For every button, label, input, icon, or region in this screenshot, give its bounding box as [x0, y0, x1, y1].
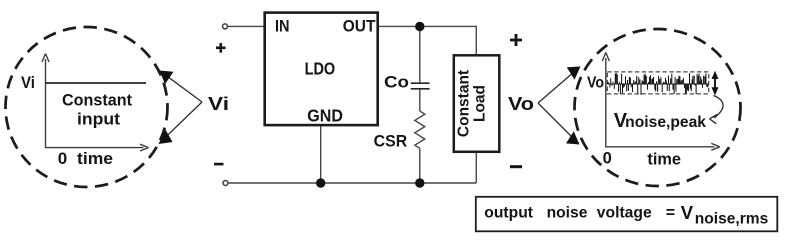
svg-text:time: time [77, 150, 113, 168]
svg-text:Vi: Vi [21, 74, 35, 92]
svg-text:Load: Load [472, 85, 489, 122]
svg-text:OUT: OUT [343, 16, 376, 35]
svg-text:LDO: LDO [305, 59, 336, 79]
svg-text:0: 0 [58, 149, 67, 168]
svg-text:V: V [681, 202, 694, 223]
svg-text:voltage: voltage [597, 205, 652, 222]
svg-text:output: output [484, 205, 533, 222]
svg-text:time: time [647, 150, 681, 168]
svg-text:CSR: CSR [374, 131, 408, 150]
svg-text:noise: noise [547, 205, 588, 222]
svg-text:IN: IN [275, 16, 290, 35]
svg-text:Vo: Vo [508, 93, 534, 114]
svg-text:Constant: Constant [62, 92, 132, 110]
svg-text:noise,peak: noise,peak [625, 114, 706, 131]
svg-text:input: input [77, 111, 121, 129]
svg-text:Vo: Vo [587, 74, 604, 91]
svg-text:noise,rms: noise,rms [695, 210, 769, 227]
svg-text:=: = [666, 205, 675, 222]
svg-text:0: 0 [603, 149, 612, 167]
svg-text:Co: Co [384, 72, 409, 91]
svg-text:Vi: Vi [208, 93, 229, 114]
svg-text:GND: GND [307, 106, 343, 126]
svg-text:Constant: Constant [456, 70, 473, 137]
